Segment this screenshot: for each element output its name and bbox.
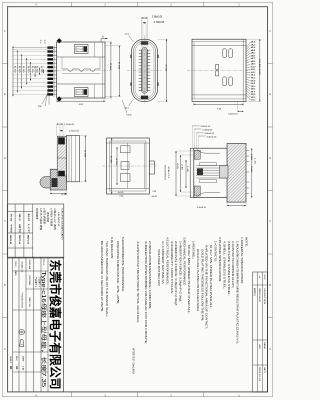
svg-text:B2: B2 <box>251 78 256 80</box>
svg-text:GOLD PLATING THICKNESS FOLLOW: GOLD PLATING THICKNESS FOLLOW THE P/N; <box>200 249 204 321</box>
svg-text:6.50: 6.50 <box>27 66 29 73</box>
svg-text:6.IR REFLOW:: 6.IR REFLOW: <box>110 237 114 259</box>
svg-text:AFTER TEST: 50mΩ MAX: AFTER TEST: 50mΩ MAX <box>131 348 135 374</box>
svg-text:1.HOUSING:HIGH TEMPERATURE RES: 1.HOUSING:HIGH TEMPERATURE RESISTANT PLA… <box>235 241 239 344</box>
svg-text:0.3: 0.3 <box>43 40 45 44</box>
svg-text:6.50: 6.50 <box>36 66 38 73</box>
svg-text:2>(FRONT SHELL):: 2>(FRONT SHELL): <box>191 241 195 259</box>
view A pin pitch dimension chain <box>12 46 14 96</box>
svg-text:0.40±0.10: 0.40±0.10 <box>197 207 207 209</box>
view B tongue <box>142 48 148 94</box>
svg-text:A>PLATED ON THE FUNCTIONAL ARE: A>PLATED ON THE FUNCTIONAL AREA OF CONTA… <box>204 245 208 329</box>
svg-text:DESCRIPTION: DESCRIPTION <box>263 288 265 305</box>
svg-text:0.65: 0.65 <box>250 166 252 172</box>
title block row lines <box>13 270 48 272</box>
svg-text:2.40: 2.40 <box>181 164 183 170</box>
svg-text:0.70±0.05: 0.70±0.05 <box>154 22 165 24</box>
svg-text:PIN#: PIN# <box>38 106 42 108</box>
zone ticks right border <box>268 63 273 65</box>
view E height dimension inner <box>111 138 113 194</box>
title block frame <box>8 256 64 258</box>
view B height dimension 8.94 <box>158 38 169 40</box>
sheet inner border frame <box>8 7 268 392</box>
svg-text:(2.14): (2.14) <box>61 194 67 196</box>
svg-text:4.05: 4.05 <box>176 163 178 169</box>
svg-text:1>INSERTION FORCE: 0.5kgf<F<2.: 1>INSERTION FORCE: 0.5kgf<F<2.0kgf; <box>178 241 182 302</box>
revision table column line <box>261 272 263 392</box>
svg-text:PROJECTION: PROJECTION <box>21 293 23 309</box>
svg-text:3>DIELECTRIC WITHSTANDING VOLT: 3>DIELECTRIC WITHSTANDING VOLTAGE:AC 100… <box>144 241 148 344</box>
view B centerlines <box>144 36 146 106</box>
view A bottom rail line <box>57 83 105 85</box>
view C depth dimension 7.35 <box>193 101 195 105</box>
svg-text:3.28±0.10: 3.28±0.10 <box>207 136 217 138</box>
view A leader lines lower left <box>42 91 49 104</box>
zone ticks left border <box>2 63 7 65</box>
svg-text:PART NO: PART NO <box>28 298 31 308</box>
svg-text:4.SHELL: STAINLESS STEEL;: 4.SHELL: STAINLESS STEEL; <box>222 241 226 289</box>
view C pin length dimension 0.40 <box>237 101 239 111</box>
view A direction arrow A <box>101 39 108 42</box>
svg-text:LWH: LWH <box>258 344 260 350</box>
view D foot left tab <box>40 177 50 188</box>
svg-text:B1: B1 <box>9 366 13 370</box>
revision table frame <box>253 272 268 392</box>
svg-text:UNIT:MM: UNIT:MM <box>28 276 30 286</box>
view F upper cavity detail <box>194 150 200 159</box>
svg-text:1> CURRENT RATING:5A: 1> CURRENT RATING:5A <box>161 241 165 284</box>
view F small contact rects <box>200 163 217 166</box>
view B cavity contour <box>135 43 154 98</box>
svg-text:TITLE:: TITLE: <box>42 259 44 267</box>
svg-text:NI 30u" MIN. UNDER PLATED OVER: NI 30u" MIN. UNDER PLATED OVER ALL; <box>187 245 191 314</box>
svg-text:THE PEAK TEMPERATURE ON THE BO: THE PEAK TEMPERATURE ON THE BOARD SHALL <box>105 241 109 318</box>
svg-text:C0.25: C0.25 <box>127 115 132 117</box>
svg-text:5.85±0.10: 5.85±0.10 <box>201 126 211 128</box>
svg-text:GOLD FLASH PLATING ON SOLDER A: GOLD FLASH PLATING ON SOLDER AREA <box>196 249 200 311</box>
view C top shoulder line <box>192 45 246 47</box>
title block column lines <box>12 257 14 392</box>
view F dim extension drops <box>192 125 194 148</box>
view B leader C0.3 top left <box>129 36 134 43</box>
svg-text:2.40: 2.40 <box>120 196 124 198</box>
svg-text:SECTION B-B: SECTION B-B <box>163 165 165 181</box>
svg-text:VOLTAGE RATING:20V: VOLTAGE RATING:20V <box>157 249 161 286</box>
revision table row lines <box>253 284 268 286</box>
svg-text:1.MATERIAL SPECIFICATION:: 1.MATERIAL SPECIFICATION: <box>240 237 244 284</box>
svg-text:SCALE 1:1: SCALE 1:1 <box>21 262 24 274</box>
view F left dim extension lines <box>176 150 193 152</box>
svg-text:1.20±0.05: 1.20±0.05 <box>64 124 74 126</box>
view D foot <box>50 169 66 190</box>
svg-text:C0.3: C0.3 <box>125 34 129 36</box>
svg-text:REV:: REV: <box>15 356 17 361</box>
view D main slab <box>67 136 80 182</box>
svg-text:B9: B9 <box>251 97 256 99</box>
view E center feature middle <box>121 162 129 170</box>
BOM table row lines <box>8 210 33 212</box>
svg-text:2.CONTACTS:COPPER ALLOY;: 2.CONTACTS:COPPER ALLOY; <box>231 241 235 288</box>
view B leader bottom left <box>129 99 134 106</box>
svg-text:1.15: 1.15 <box>254 158 256 164</box>
view E centerline <box>102 165 158 167</box>
view A pad extension lines <box>12 47 47 49</box>
svg-text:6.50: 6.50 <box>18 66 20 73</box>
svg-text:Type-c16母座上型母座，长度7.35: Type-c16母座上型母座，长度7.35 <box>40 271 47 387</box>
svg-text:6.50: 6.50 <box>22 66 24 73</box>
svg-text:OPERATING TEMPERATURE: -30℃~+8: OPERATING TEMPERATURE: -30℃~+85℃; <box>116 241 120 304</box>
svg-text:B6: B6 <box>251 89 256 91</box>
view C bottom shoulder line <box>192 94 246 96</box>
svg-text:0.75±0.05: 0.75±0.05 <box>69 130 79 132</box>
svg-text:3.MID PLATE: STAINLESS STEEL;: 3.MID PLATE: STAINLESS STEEL; <box>227 241 231 296</box>
svg-text:2020-07-23: 2020-07-23 <box>258 367 260 381</box>
view F right dimension column <box>251 148 253 198</box>
view E inner frame <box>110 141 147 191</box>
view F left nested dimensions <box>175 151 177 196</box>
view A solder tab diamond bottom <box>57 96 62 101</box>
view F right mounting block hatched <box>227 144 246 203</box>
view A latch detail bottom-right <box>75 88 89 97</box>
svg-text:B8: B8 <box>251 94 256 96</box>
view E partial height dimension <box>116 147 118 185</box>
svg-text:B1: B1 <box>251 75 256 77</box>
view C body outline <box>192 39 246 101</box>
view F body outline <box>194 148 227 198</box>
svg-text:5.08±0.05: 5.08±0.05 <box>203 129 213 131</box>
svg-text:REV-0: REV-0 <box>27 235 29 245</box>
view B shell ground springs bottom <box>141 96 148 99</box>
view A pad edge line <box>53 46 55 97</box>
svg-text:4>LOW CONTACT RESISTANCE: INIT: 4>LOW CONTACT RESISTANCE: INITIAL 40mΩ M… <box>136 241 140 323</box>
svg-text:2>REMOVAL FORCE: 0.8kgf<F<2.0k: 2>REMOVAL FORCE: 0.8kgf<F<2.0kgf; <box>174 241 178 306</box>
svg-text:BE MAINTAINED FOR 10 SECONDS A: BE MAINTAINED FOR 10 SECONDS AT 260℃. <box>100 241 104 312</box>
svg-text:2.38: 2.38 <box>153 191 157 193</box>
view E body outline <box>107 138 150 194</box>
svg-text:4.ELECTRICAL PERFORMANCE:: 4.ELECTRICAL PERFORMANCE: <box>165 237 169 285</box>
view D left contact profile <box>57 136 66 181</box>
view B contact ticks <box>139 49 142 51</box>
svg-text:B4: B4 <box>251 83 256 85</box>
svg-text:SIZE:A4: SIZE:A4 <box>28 260 31 271</box>
view B tongue contact edge strips <box>141 50 143 92</box>
svg-text:东莞市俊嘉电子有限公司: 东莞市俊嘉电子有限公司 <box>48 260 63 390</box>
svg-text:DATE: DATE <box>263 367 266 374</box>
svg-text:5.ENVIRONMENTAL PERFORMANCE:: 5.ENVIRONMENTAL PERFORMANCE: <box>121 237 125 292</box>
view A top rail line <box>57 56 105 58</box>
view B shell inner contour <box>133 41 155 100</box>
svg-text:0.85: 0.85 <box>250 154 252 160</box>
svg-text:0.40±0.10: 0.40±0.10 <box>228 114 238 116</box>
view A width dimension 4.28 <box>56 98 58 102</box>
svg-text:5.RoHS COMPLIANT: 5.RoHS COMPLIANT <box>60 208 63 241</box>
svg-text:3.66±0.15: 3.66±0.15 <box>205 133 215 135</box>
svg-text:SHEET:: SHEET: <box>9 356 11 364</box>
svg-text:2.PLATING SPECIFICATION:: 2.PLATING SPECIFICATION: <box>218 237 222 282</box>
svg-text:NEW ISSUE: NEW ISSUE <box>258 288 260 303</box>
view F tongue contact stack <box>196 165 227 167</box>
view E bottom step <box>107 188 150 190</box>
view B shell outer stadium <box>132 39 158 101</box>
BOM table column lines <box>14 204 16 258</box>
view C key slots top <box>223 49 227 58</box>
view E inner detail rects <box>121 146 131 153</box>
svg-text:SCALE 1:1: SCALE 1:1 <box>167 167 170 179</box>
svg-text:NI 30u" MIN. UNDER PLATED OVER: NI 30u" MIN. UNDER PLATED OVER ALL; <box>209 245 213 309</box>
view A height dimension 8.94 right <box>105 41 112 43</box>
view B tongue width dimension 2.38 <box>141 17 143 47</box>
view B leader bottom right <box>122 100 127 113</box>
svg-text:NOTE:: NOTE: <box>244 237 248 247</box>
svg-text:1>CONTACTS:: 1>CONTACTS: <box>213 241 217 262</box>
svg-text:4-0.28: 4-0.28 <box>152 196 157 198</box>
view F lower cavity detail <box>194 186 200 196</box>
view C overall height dimension <box>246 38 262 40</box>
view E top step <box>107 142 150 144</box>
view B dimension 0.70 <box>142 22 144 49</box>
view A second right dimension <box>105 45 121 47</box>
view A solder tab diamond top <box>57 38 62 43</box>
svg-text:NAME: NAME <box>263 342 266 350</box>
view F center dark block <box>197 169 203 176</box>
view A solder pads left column <box>47 46 53 48</box>
view F shell top spring <box>196 148 220 153</box>
view D height dimension <box>80 135 88 137</box>
view E inner vertical lines <box>127 143 129 189</box>
svg-text:4-0.05: 4-0.05 <box>118 192 123 194</box>
zone ticks top border <box>71 2 73 6</box>
view A mid recess wavy edge <box>62 69 100 71</box>
view F pin tips right <box>246 150 249 152</box>
view B side bumps <box>130 55 131 58</box>
view C pin leads fan <box>246 42 251 48</box>
svg-text:DATE: DATE <box>21 356 24 362</box>
svg-text:2>INSULATION RESISTANCE: 100MΩ: 2>INSULATION RESISTANCE: 100MΩ MIN; <box>148 241 152 309</box>
svg-text:REV-B: REV-B <box>9 235 11 245</box>
zone ticks bottom border <box>71 392 73 397</box>
svg-text:UL94V-0: UL94V-0 <box>57 212 59 228</box>
svg-text:6.50: 6.50 <box>40 66 42 73</box>
svg-text:1.20: 1.20 <box>186 166 188 172</box>
view B shell ground springs top <box>141 41 148 44</box>
title block projection symbol cone <box>20 340 24 347</box>
title block projection symbol circle <box>19 329 24 334</box>
svg-text:3>DURABILITY: 10000 CYCLES;: 3>DURABILITY: 10000 CYCLES; <box>170 241 174 294</box>
view F left wall <box>190 148 194 198</box>
view A inner right edge lines <box>94 42 96 57</box>
svg-text:DWG: DWG <box>14 262 16 267</box>
view C key slots bottom <box>223 77 227 86</box>
svg-text:B5: B5 <box>251 86 256 88</box>
svg-text:REV-A: REV-A <box>18 235 21 245</box>
view C center slot <box>216 64 219 69</box>
view A latch detail top-right <box>75 45 89 54</box>
svg-text:0.5: 0.5 <box>39 40 41 44</box>
svg-text:PATH: PATH <box>14 271 17 277</box>
svg-text:B7: B7 <box>251 91 256 93</box>
view D bottom dimension <box>49 190 51 195</box>
BOM table frame <box>8 204 64 258</box>
view A body edge extension lines <box>12 46 57 48</box>
svg-text:10.10±0.05: 10.10±0.05 <box>258 59 260 75</box>
view A centerline <box>51 69 110 71</box>
svg-text:3.MECHANICAL PERFORMANCE:: 3.MECHANICAL PERFORMANCE: <box>182 237 186 286</box>
svg-text:6.50: 6.50 <box>31 66 33 73</box>
view A body outline (top view) <box>57 42 105 98</box>
svg-text:2.38±0.05: 2.38±0.05 <box>152 17 163 19</box>
svg-text:6.50: 6.50 <box>14 66 16 73</box>
svg-text:A1: A1 <box>15 366 19 370</box>
view C face edge line <box>242 39 244 101</box>
view E right bump <box>149 161 154 174</box>
svg-text:B3: B3 <box>251 80 256 82</box>
view C centerline <box>187 69 250 71</box>
